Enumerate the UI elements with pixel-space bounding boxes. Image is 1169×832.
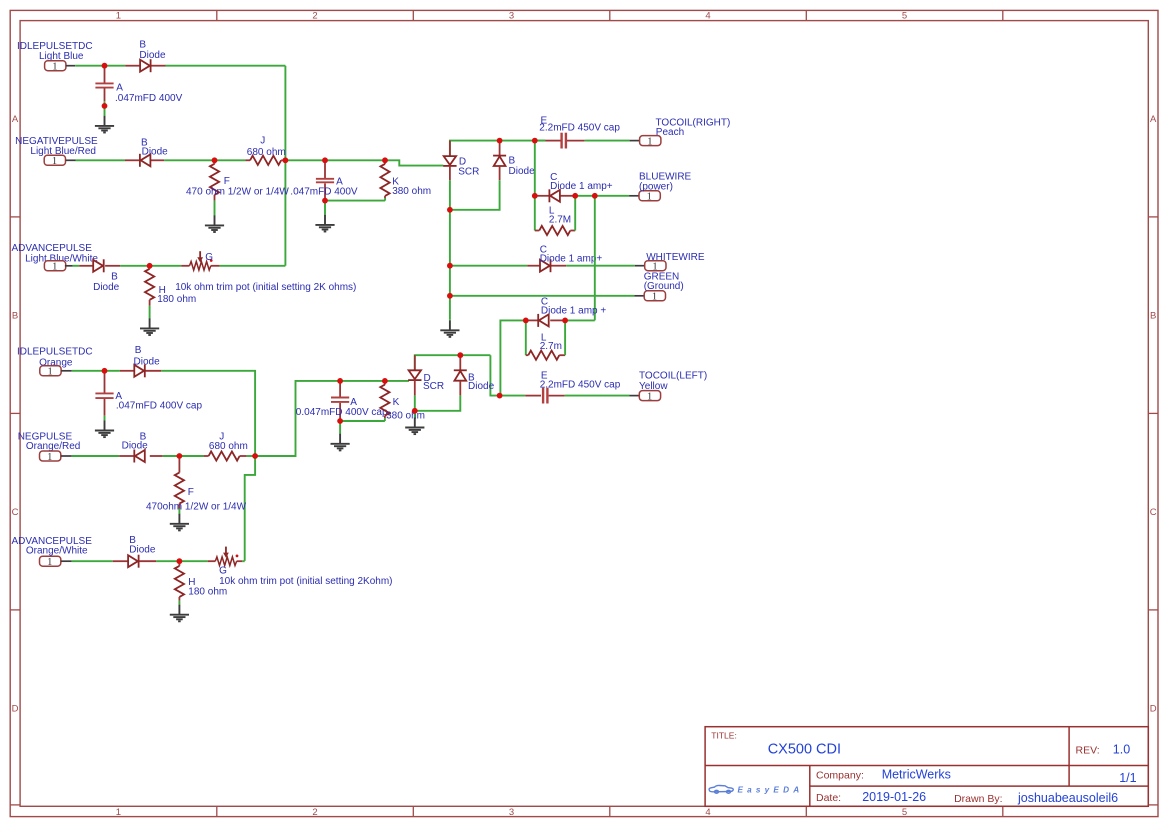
- capacitor A2 top lead: [324, 160, 326, 178]
- junction row2/resK: [382, 157, 388, 163]
- svg-text:B: B: [135, 345, 142, 356]
- wire: [220, 265, 286, 267]
- diode B6 top lead: [459, 355, 461, 370]
- ruler ticks left: [10, 217, 20, 610]
- wire: [149, 306, 151, 319]
- svg-text:SCR: SCR: [458, 166, 479, 177]
- capacitor A3 bottom lead: [104, 399, 106, 416]
- wire: [247, 455, 256, 457]
- diode B3 bottom lead: [499, 166, 501, 180]
- resistor H2 bottom lead: [178, 597, 180, 601]
- trimpot G2 leads: [208, 560, 216, 562]
- svg-text:K: K: [393, 397, 400, 408]
- wire left jog: [490, 355, 499, 395]
- wire B3 to SCR cathode: [450, 180, 500, 210]
- wire: [72, 455, 120, 457]
- svg-text:1/1: 1/1: [1119, 771, 1136, 785]
- resistor H (180 ohm) #2: [175, 566, 184, 597]
- resistor F bottom lead: [214, 195, 216, 201]
- junction C3 right: [562, 318, 568, 324]
- wire C3 right: [565, 319, 595, 321]
- port ADVANCEPULSE (Orange/White) pin 1: [40, 556, 61, 568]
- wire: [214, 201, 216, 216]
- wire C3 left + down: [500, 320, 525, 395]
- diode C3 leads: [550, 319, 565, 321]
- svg-text:1: 1: [647, 192, 652, 203]
- resistor K bottom lead: [384, 196, 386, 198]
- resistor F (470ohm) #2: [175, 473, 184, 504]
- capacitor E2 leads: [525, 395, 541, 397]
- svg-text:680 ohm: 680 ohm: [209, 441, 248, 452]
- svg-text:180 ohm: 180 ohm: [157, 294, 196, 305]
- pin stub: [630, 395, 640, 397]
- diode B (row6): [128, 555, 139, 568]
- svg-text:CX500 CDI: CX500 CDI: [768, 742, 841, 758]
- svg-text:1: 1: [116, 807, 121, 818]
- svg-text:.047mFD 400V cap: .047mFD 400V cap: [116, 401, 203, 412]
- pin stub: [66, 65, 75, 67]
- diode C1 leads: [535, 195, 550, 197]
- port IDLEPULSETDC (Orange) pin 1: [40, 366, 61, 378]
- corner tick bottom-left: [10, 804, 20, 806]
- svg-text:D: D: [1150, 703, 1157, 714]
- diode B7 leads: [113, 560, 128, 562]
- svg-text:2.7M: 2.7M: [549, 215, 571, 226]
- wire: [76, 159, 126, 161]
- svg-text:(Ground): (Ground): [644, 281, 684, 292]
- port NEGATIVEPULSE (Light Blue/Red) pin 1: [44, 155, 65, 167]
- wire: [72, 560, 113, 562]
- svg-text:Diode: Diode: [142, 147, 169, 158]
- svg-text:J: J: [260, 136, 265, 147]
- junction row3/resH: [147, 263, 153, 269]
- svg-text:2.7m: 2.7m: [540, 341, 562, 352]
- wire row4 right + down: [161, 371, 255, 561]
- pin stub: [630, 140, 640, 142]
- resistor H2 top lead: [178, 561, 180, 566]
- wire: [178, 601, 180, 605]
- port TOCOIL(LEFT) (Yellow) pin 1: [639, 391, 660, 403]
- svg-text:Diode: Diode: [134, 356, 161, 367]
- wire row5 to bus: [255, 381, 409, 456]
- SCR D (thyristor) #2: [408, 370, 421, 380]
- wire: [285, 159, 325, 161]
- svg-text:B: B: [1150, 310, 1156, 321]
- resistor K top lead: [384, 160, 386, 164]
- wire: [384, 198, 386, 201]
- wire: [104, 106, 106, 116]
- junction TOCOIL(LEFT): [497, 393, 503, 399]
- wire: [414, 395, 416, 410]
- svg-text:C: C: [1150, 507, 1157, 518]
- svg-text:2.2mFD 450V cap: 2.2mFD 450V cap: [540, 380, 621, 391]
- svg-text:2.2mFD 450V cap: 2.2mFD 450V cap: [539, 122, 620, 133]
- capacitor A4 top lead: [339, 381, 341, 397]
- junction C1 left: [532, 193, 538, 199]
- capacitor E (2.2mFD 450V cap): [562, 133, 566, 149]
- pin stub: [629, 195, 639, 197]
- port TOCOIL(RIGHT) (Peach) pin 1: [640, 136, 661, 148]
- resistor F top lead: [214, 160, 216, 164]
- capacitor A (.047mFD 400V) #2: [316, 179, 334, 183]
- svg-text:180 ohm: 180 ohm: [188, 586, 227, 597]
- svg-text:10k ohm trim pot (initial sett: 10k ohm trim pot (initial setting 2Kohm): [219, 576, 392, 587]
- svg-text:TITLE:: TITLE:: [711, 731, 737, 741]
- wire: [73, 265, 80, 267]
- SCR D (thyristor): [443, 156, 456, 166]
- EasyEDA logo: [709, 785, 733, 793]
- svg-text:1: 1: [52, 262, 57, 273]
- svg-text:Diode: Diode: [93, 282, 120, 293]
- resistor K (380 ohm) #2: [380, 385, 389, 416]
- wire: [450, 265, 527, 267]
- junction row4/capA3: [102, 368, 108, 374]
- pin stub: [65, 265, 73, 267]
- svg-text:680 ohm: 680 ohm: [247, 147, 286, 158]
- wire: [120, 265, 150, 267]
- port NEGPULSE (Orange/Red) pin 1: [40, 451, 61, 463]
- svg-text:380 ohm: 380 ohm: [392, 186, 431, 197]
- capacitor A2 bottom lead: [324, 183, 326, 200]
- svg-text:1: 1: [116, 10, 121, 21]
- svg-text:10k ohm trim pot (initial sett: 10k ohm trim pot (initial setting 2K ohm…: [175, 282, 356, 293]
- capacitor E right lead: [567, 140, 585, 142]
- resistor L2 left wire: [525, 320, 527, 355]
- wire: [325, 200, 385, 202]
- svg-text:Drawn By:: Drawn By:: [954, 793, 1002, 805]
- svg-text:WHITEWIRE: WHITEWIRE: [646, 252, 705, 263]
- pin stub: [61, 560, 72, 562]
- svg-text:Date:: Date:: [816, 792, 841, 804]
- ground (H2): [170, 605, 189, 622]
- svg-text:ADVANCEPULSE: ADVANCEPULSE: [12, 243, 93, 254]
- resistor L2 leads: [526, 354, 529, 356]
- wire bus2 top: [415, 355, 491, 370]
- diode B6 bottom lead: [459, 381, 461, 396]
- wire: [585, 140, 630, 142]
- svg-text:1.0: 1.0: [1113, 742, 1130, 756]
- wire: [164, 159, 214, 161]
- wire: [449, 180, 451, 210]
- junction SCR2 cathode node: [412, 408, 418, 414]
- trim pot G (10k) #2: [215, 547, 238, 566]
- resistor F2 top lead: [178, 456, 180, 473]
- junction C3 left: [523, 318, 529, 324]
- svg-text:F: F: [188, 487, 194, 498]
- wire: [179, 455, 203, 457]
- port WHITEWIRE pin 1: [645, 261, 666, 273]
- ruler numbers top: [116, 10, 907, 21]
- ground (A4): [331, 434, 350, 451]
- capacitor A (0.047mFD 400V cap) #4: [331, 398, 349, 402]
- wire: [104, 101, 106, 106]
- ruler letters left: [12, 114, 19, 715]
- diode B3 top lead: [499, 141, 501, 156]
- resistor J2 leads: [204, 455, 209, 457]
- wire: [450, 295, 635, 297]
- wire: [414, 411, 416, 418]
- svg-text:Diode 1 amp+: Diode 1 amp+: [550, 181, 613, 192]
- resistor L (2.7M): [539, 226, 570, 235]
- port BLUEWIRE (power) pin 1: [639, 191, 660, 203]
- junction bus/capE: [532, 138, 538, 144]
- diode B4 leads: [120, 370, 134, 372]
- ruler numbers bottom: [116, 807, 907, 818]
- ground (A1): [95, 116, 114, 133]
- resistor K2 top lead: [384, 381, 386, 385]
- ground (main upper): [440, 320, 459, 337]
- wire SCR node down: [449, 210, 451, 320]
- svg-text:380 ohm: 380 ohm: [386, 411, 425, 422]
- wire: [324, 201, 326, 216]
- wire jog to SCR gate: [385, 160, 443, 165]
- corner tick bottom-right: [1148, 804, 1158, 806]
- svg-text:Diode: Diode: [122, 440, 149, 451]
- wire bus down to diode C1: [534, 141, 536, 196]
- junction GREEN row: [447, 293, 453, 299]
- svg-text:.047mFD 400V: .047mFD 400V: [115, 93, 183, 104]
- svg-text:2019-01-26: 2019-01-26: [862, 790, 926, 804]
- resistor J (680 ohm) #2: [209, 451, 240, 460]
- junction BLUEWIRE/vert: [592, 193, 598, 199]
- svg-text:C: C: [12, 507, 19, 518]
- svg-text:470 ohm 1/2W or 1/4W: 470 ohm 1/2W or 1/4W: [186, 186, 289, 197]
- svg-text:1: 1: [47, 557, 52, 568]
- svg-text:.047mFD 400V: .047mFD 400V: [290, 187, 358, 198]
- svg-text:1: 1: [652, 292, 657, 303]
- junction bus/diodeB3: [497, 138, 503, 144]
- svg-text:1: 1: [52, 156, 57, 167]
- trimpot G1 leads: [181, 265, 189, 267]
- ground (A3): [95, 421, 114, 438]
- wire: [104, 416, 106, 421]
- wire: [535, 140, 546, 142]
- svg-text:Diode 1 amp+: Diode 1 amp+: [540, 254, 603, 265]
- junction bus2/capA4: [337, 378, 343, 384]
- svg-text:3: 3: [509, 10, 514, 21]
- diode C (1 amp, BLUEWIRE): [549, 189, 560, 202]
- resistor L1 right wire: [574, 196, 576, 231]
- svg-text:REV:: REV:: [1076, 744, 1100, 756]
- svg-text:Diode: Diode: [129, 545, 156, 556]
- wire: [325, 159, 385, 161]
- wire: [179, 560, 207, 562]
- diode B1 leads: [125, 65, 140, 67]
- svg-text:joshuabeausoleil6: joshuabeausoleil6: [1017, 791, 1118, 805]
- diode B (vertical, lower): [454, 370, 467, 380]
- SCR D2 anode lead: [414, 355, 416, 370]
- wire: [500, 395, 526, 397]
- resistor H1 top lead: [149, 266, 151, 269]
- svg-text:B: B: [509, 156, 516, 167]
- capacitor A (.047mFD 400V): [95, 83, 113, 87]
- diode B (row1): [140, 59, 151, 72]
- ground (F): [205, 215, 224, 232]
- resistor L1 left wire: [534, 196, 536, 231]
- svg-text:A: A: [1150, 114, 1157, 125]
- wire: [150, 265, 182, 267]
- wire: [165, 65, 285, 67]
- svg-text:(power): (power): [639, 181, 673, 192]
- svg-text:4: 4: [705, 10, 710, 21]
- junction row2/capA2: [322, 157, 328, 163]
- svg-text:0.047mFD 400V cap: 0.047mFD 400V cap: [296, 407, 388, 418]
- resistor J (680 ohm): [250, 156, 281, 165]
- capacitor A1 top lead: [104, 66, 106, 83]
- svg-text:2: 2: [312, 10, 317, 21]
- junction WHITEWIRE row: [447, 263, 453, 269]
- svg-text:D: D: [12, 703, 19, 714]
- junction bus2/resK2: [382, 378, 388, 384]
- diode C (1 amp, WHITEWIRE): [540, 259, 551, 272]
- svg-text:Diode: Diode: [468, 381, 495, 392]
- capacitor A (.047mFD 400V cap) #3: [95, 393, 113, 398]
- pin stub: [61, 455, 72, 457]
- SCR D cathode lead: [449, 166, 451, 180]
- svg-text:3: 3: [509, 807, 514, 818]
- svg-text:Peach: Peach: [656, 127, 684, 138]
- port GREEN (Ground) pin 1: [644, 291, 665, 303]
- junction row2/resF: [212, 157, 218, 163]
- resistor F2 bottom lead: [178, 504, 180, 509]
- wire: [566, 265, 635, 267]
- wire: [163, 455, 180, 457]
- diode B (vertical, upper): [493, 156, 506, 166]
- diode B (row5): [134, 450, 145, 463]
- svg-text:1: 1: [647, 391, 652, 402]
- svg-text:5: 5: [902, 807, 907, 818]
- svg-text:2: 2: [312, 807, 317, 818]
- gnd stem: [449, 319, 451, 322]
- title block outline: [705, 727, 1148, 807]
- svg-text:1: 1: [647, 136, 652, 147]
- junction C1 right: [572, 193, 578, 199]
- pin stub: [634, 295, 644, 297]
- svg-text:1: 1: [47, 452, 52, 463]
- diode C2 leads: [527, 265, 540, 267]
- svg-text:Diode 1 amp +: Diode 1 amp +: [541, 305, 606, 316]
- svg-text:IDLEPULSETDC: IDLEPULSETDC: [17, 346, 93, 357]
- wire: [384, 418, 386, 421]
- junction capA2/gnd: [322, 198, 328, 204]
- diode C (1 amp, lower): [538, 314, 549, 327]
- svg-text:SCR: SCR: [423, 381, 444, 392]
- diode B (row2): [140, 154, 151, 167]
- ground (A2): [315, 215, 334, 232]
- svg-text:EasyEDA: EasyEDA: [738, 785, 804, 794]
- resistor H1 bottom lead: [149, 300, 151, 306]
- junction row1/capA: [102, 63, 108, 69]
- junction capA4/gnd: [337, 418, 343, 424]
- diode B (row3): [93, 259, 104, 272]
- resistor L (2.7m): [528, 351, 559, 360]
- wire: [595, 195, 629, 197]
- ruler ticks right: [1148, 217, 1158, 610]
- wire vertical x284.5: [284, 66, 286, 266]
- junction bus2/diodeB6: [457, 352, 463, 358]
- resistor J leads: [245, 159, 250, 161]
- resistor F (470 ohm): [210, 164, 219, 195]
- wire: [339, 421, 341, 434]
- svg-text:G: G: [205, 252, 213, 263]
- SCR D2 cathode lead: [414, 380, 416, 395]
- svg-text:1: 1: [52, 62, 57, 73]
- wire: [575, 195, 595, 197]
- svg-text:MetricWerks: MetricWerks: [882, 768, 951, 782]
- wire: [75, 65, 125, 67]
- wire vert x594.8: [594, 196, 596, 321]
- port IDLEPULSETDC (Light Blue) pin 1: [45, 61, 66, 73]
- wire: [242, 560, 244, 562]
- resistor K (380 ohm): [380, 164, 389, 196]
- capacitor E (2.2mFD 450V cap) #2: [543, 388, 547, 404]
- diode B2 leads: [125, 159, 140, 161]
- svg-text:4: 4: [705, 807, 710, 818]
- ruler ticks top: [217, 10, 1003, 20]
- svg-text:B: B: [139, 39, 146, 50]
- trim pot G (10k): [190, 251, 213, 270]
- svg-text:Diode: Diode: [509, 166, 536, 177]
- pin stub: [635, 265, 645, 267]
- svg-text:470ohm 1/2W or 1/4W: 470ohm 1/2W or 1/4W: [146, 502, 247, 513]
- svg-text:1: 1: [47, 367, 52, 378]
- wire: [340, 420, 385, 422]
- svg-text:Orange/White: Orange/White: [26, 546, 88, 557]
- SCR D anode lead: [449, 141, 451, 156]
- svg-text:Yellow: Yellow: [639, 381, 668, 392]
- svg-text:A: A: [12, 114, 19, 125]
- ruler ticks bottom: [217, 806, 1003, 816]
- junction row2/vert: [283, 157, 289, 163]
- wire B6 to SCR2 cathode: [415, 395, 461, 410]
- junction row5/resF2: [177, 453, 183, 459]
- diode B (row4): [134, 364, 145, 377]
- svg-text:5: 5: [902, 10, 907, 21]
- pin stub: [66, 159, 76, 161]
- diode B5 leads: [119, 455, 134, 457]
- resistor K2 bottom lead: [384, 416, 386, 419]
- svg-text:B: B: [12, 310, 18, 321]
- resistor L2 right wire: [564, 320, 566, 355]
- junction capA1/gnd: [102, 103, 108, 109]
- resistor H (180 ohm): [145, 269, 154, 300]
- junction row5/vert: [252, 453, 258, 459]
- junction row6/resH2: [177, 558, 183, 564]
- svg-text:Company:: Company:: [816, 770, 864, 782]
- capacitor A4 bottom lead: [339, 403, 341, 421]
- ruler letters right: [1150, 114, 1157, 715]
- wire: [156, 560, 179, 562]
- wire: [72, 370, 120, 372]
- junction SCR cathode node: [447, 207, 453, 213]
- diode B row3 leads: [79, 265, 93, 267]
- resistor L1 leads: [535, 230, 540, 232]
- svg-text:Diode: Diode: [139, 50, 166, 61]
- wire top bus: [450, 141, 545, 156]
- port ADVANCEPULSE (Light Blue/White) pin 1: [44, 261, 65, 273]
- wire: [565, 395, 630, 397]
- capacitor A3 top lead: [104, 371, 106, 393]
- ground (SCR2): [405, 418, 424, 435]
- capacitor A1 bottom lead: [104, 88, 106, 101]
- wire: [215, 159, 246, 161]
- ground (H1): [140, 318, 159, 335]
- wire: [178, 509, 180, 515]
- pin stub: [61, 370, 72, 372]
- ground (F2): [170, 514, 189, 531]
